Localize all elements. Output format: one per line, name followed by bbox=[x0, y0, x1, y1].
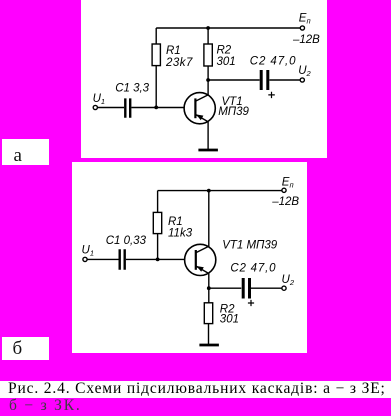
svg-text:301: 301 bbox=[217, 56, 236, 68]
svg-text:301: 301 bbox=[220, 314, 239, 326]
wire: R2 bottom to collector bbox=[207, 66, 209, 95]
svg-text:Eп: Eп bbox=[299, 12, 311, 25]
wire: emitter to ground bbox=[207, 122, 209, 149]
terminal U1 (circuit a) bbox=[93, 105, 97, 109]
white panel circuit a bbox=[81, 0, 327, 158]
ground (circuit b) bbox=[199, 344, 219, 347]
svg-text:R1: R1 bbox=[168, 216, 183, 228]
svg-text:C1 0,33: C1 0,33 bbox=[106, 235, 147, 247]
wire: rail corner to R1 top (circuit b) bbox=[157, 191, 159, 213]
svg-text:U1: U1 bbox=[82, 245, 94, 258]
capacitor C2 (circuit a) bbox=[261, 70, 268, 90]
terminal U2 (circuit b) bbox=[282, 286, 286, 290]
svg-text:C2 47,0: C2 47,0 bbox=[230, 263, 276, 275]
caption line 2 bbox=[9, 398, 82, 413]
junction: rail/R2 node bbox=[206, 26, 210, 30]
svg-text:Eп: Eп bbox=[282, 177, 294, 190]
transistor VT1 (circuit b) bbox=[185, 244, 216, 275]
white label box a bbox=[2, 139, 49, 165]
resistor R2 (circuit a) bbox=[204, 44, 212, 66]
wire: emitter to R2 (circuit b) bbox=[208, 274, 210, 303]
caption line 1 bbox=[8, 381, 386, 396]
junction: rail/collector node (circuit b) bbox=[207, 189, 211, 193]
wire: C2 to output terminal (circuit b) bbox=[251, 287, 282, 289]
junction: R1/base node (circuit b) bbox=[156, 258, 160, 262]
svg-text:–12В: –12В bbox=[271, 196, 299, 208]
svg-text:U1: U1 bbox=[93, 93, 105, 106]
wire: U1 to C1 bbox=[97, 107, 124, 109]
wire: rail corner to R1 top bbox=[155, 28, 157, 44]
capacitor C1 (circuit a) bbox=[125, 98, 130, 117]
svg-text:11k3: 11k3 bbox=[168, 227, 193, 239]
svg-text:C1 3,3: C1 3,3 bbox=[115, 82, 149, 94]
junction: emitter/C2 node (circuit b) bbox=[207, 286, 211, 290]
junction: R1/base node bbox=[154, 106, 158, 110]
svg-text:–12В: –12В bbox=[292, 34, 320, 46]
collector stroke VT1 (circuit b) bbox=[196, 246, 209, 253]
terminal U2 (circuit a) bbox=[300, 78, 304, 82]
wire: rail to collector (circuit b) bbox=[208, 191, 210, 247]
base bar VT1 (circuit a) bbox=[194, 98, 196, 118]
svg-text:R2: R2 bbox=[217, 44, 232, 56]
junction: collector/C2 node bbox=[206, 78, 210, 82]
white caption band bbox=[0, 381, 391, 398]
emitter arrow VT1 (circuit b) bbox=[196, 266, 203, 272]
svg-text:U2: U2 bbox=[282, 274, 295, 287]
collector stroke VT1 (circuit a) bbox=[195, 95, 208, 102]
svg-text:R1: R1 bbox=[166, 45, 181, 57]
wire: C2 to output terminal bbox=[269, 79, 300, 81]
resistor R1 (circuit b) bbox=[153, 212, 161, 233]
polarity + of C2 (circuit a) bbox=[268, 92, 275, 98]
svg-text:МП39: МП39 bbox=[218, 106, 249, 118]
wire: top supply rail bbox=[156, 27, 300, 29]
wire: rail to R2 top bbox=[207, 28, 209, 44]
letter b bbox=[13, 339, 23, 358]
wire: U1 to C1 (circuit b) bbox=[87, 258, 118, 260]
wire: C1 to base bbox=[131, 107, 184, 109]
base bar VT1 (circuit b) bbox=[195, 250, 197, 270]
svg-text:C2 47,0: C2 47,0 bbox=[250, 56, 297, 68]
capacitor C1 (circuit b) bbox=[120, 249, 125, 269]
ground (circuit a) bbox=[198, 149, 218, 152]
resistor R1 (circuit a) bbox=[152, 44, 160, 66]
emitter stroke VT1 (circuit b) bbox=[196, 266, 209, 274]
terminal Ep (circuit a) bbox=[300, 26, 304, 30]
transistor VT1 (circuit a) bbox=[184, 93, 215, 124]
white label box b bbox=[2, 337, 49, 360]
wire: R2 bottom to ground (circuit b) bbox=[208, 324, 210, 344]
resistor R2 (circuit b) bbox=[204, 303, 212, 324]
wire: C1 to base (circuit b) bbox=[126, 258, 185, 260]
terminal Ep (circuit b) bbox=[282, 188, 286, 192]
svg-text:23k7: 23k7 bbox=[165, 57, 193, 69]
wire: R1 bottom to base wire bbox=[155, 66, 157, 108]
white panel circuit b bbox=[72, 162, 307, 353]
emitter arrow VT1 (circuit a) bbox=[196, 114, 203, 120]
svg-text:U2: U2 bbox=[298, 65, 311, 78]
capacitor C2 (circuit b) bbox=[243, 278, 249, 299]
wire: R1 bottom to base wire (circuit b) bbox=[157, 234, 159, 260]
polarity + of C2 (circuit b) bbox=[248, 300, 254, 306]
wire: emitter node to C2 (circuit b) bbox=[209, 287, 242, 289]
wire: collector node to C2 bbox=[208, 79, 260, 81]
wire: top supply rail (circuit b) bbox=[158, 190, 282, 192]
terminal U1 (circuit b) bbox=[83, 257, 87, 261]
emitter stroke VT1 (circuit a) bbox=[195, 114, 208, 122]
svg-text:VT1 МП39: VT1 МП39 bbox=[222, 239, 278, 251]
letter a bbox=[14, 146, 22, 165]
